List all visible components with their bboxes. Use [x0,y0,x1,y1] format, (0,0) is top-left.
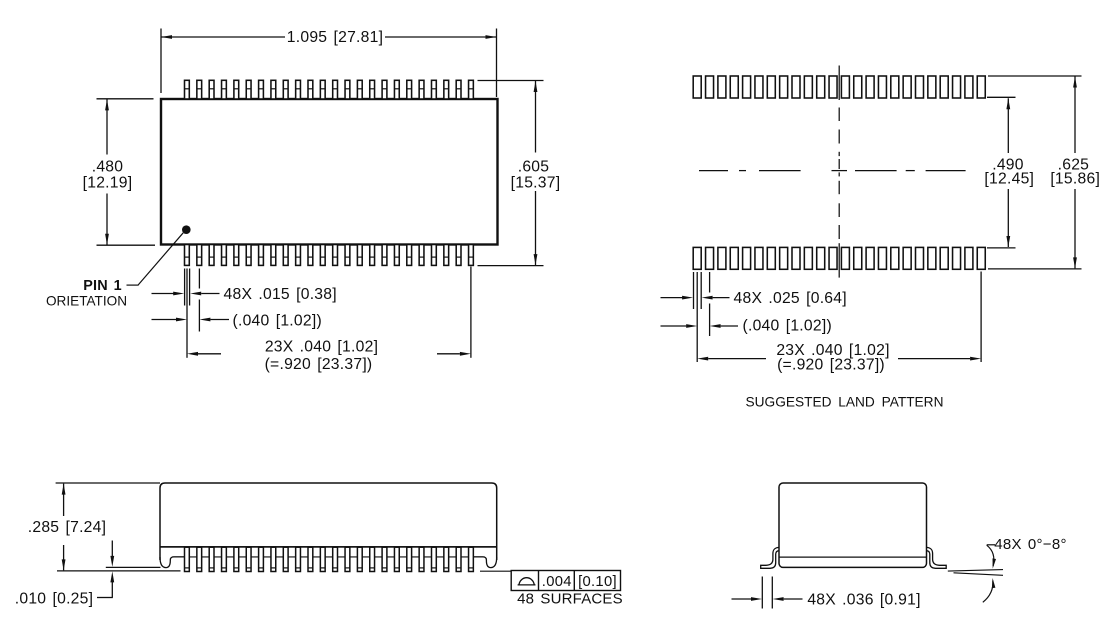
svg-text:ORIETATION: ORIETATION [46,293,127,308]
pin 1 index dot [182,225,191,234]
seating plane line (right, to flatness frame) [480,570,511,572]
side view: body bottom line [160,546,497,548]
svg-text:[15.86]: [15.86] [1050,170,1100,187]
top view: top pin row (24 leads) [185,80,474,99]
top view: package body outline [161,99,498,245]
extension lines: foot length (end view) [762,577,772,609]
svg-text:(=.920 [23.37]): (=.920 [23.37]) [777,356,885,373]
pin 1 orientation leader line [127,233,184,286]
svg-text:[0.10]: [0.10] [578,574,617,590]
flatness feature control frame .004 [0.10] [511,571,620,591]
svg-text:.480: .480 [92,159,124,176]
dimension 1.095 [27.81] overall width [161,29,497,98]
svg-text:.010 [0.25]: .010 [0.25] [15,590,94,607]
land pattern: top pad row (24 pads) [693,76,985,98]
side view: right end lead hook [472,557,496,568]
dimension 23X .040 [1.02] (=.920 [23.37]) pad span [697,342,981,373]
svg-text:48X .036 [0.91]: 48X .036 [0.91] [807,591,920,608]
lead angle reference lines 0 to 8 degrees [948,570,1003,576]
side view: package body outline [160,483,497,560]
svg-text:(.040 [1.02]): (.040 [1.02]) [743,317,832,334]
land pattern horizontal centerline [699,170,966,172]
svg-text:PIN 1: PIN 1 [83,278,122,294]
dimension 48X .025 [0.64] pad width [661,290,847,307]
land pattern vertical centerline [838,66,840,278]
dimension .010 [0.25] standoff [15,541,114,608]
side view: body bottom line over leads [160,546,497,548]
svg-text:.004: .004 [542,574,572,590]
end view: package body outline [779,483,927,567]
side view: lead tie line [172,556,485,558]
svg-text:(.040 [1.02]): (.040 [1.02]) [233,312,322,329]
dimension 48X .015 [0.38] lead width (top view) [152,286,337,303]
side view: left end lead hook and foot [160,557,185,568]
svg-text:1.095 [27.81]: 1.095 [27.81] [287,29,383,46]
end view: body parting line [779,556,927,558]
svg-text:48X .025 [0.64]: 48X .025 [0.64] [734,290,847,307]
dimension 23X .040 [1.02] (=.920 [23.37]) overall pin span (top view) [187,338,471,373]
label: PIN 1 ORIETATION [46,278,127,308]
svg-text:[12.19]: [12.19] [83,174,133,191]
seating plane line (left) [57,570,181,572]
dimension .605 [15.37] lead-tip span [478,81,561,266]
svg-text:48X 0°−8°: 48X 0°−8° [994,536,1067,553]
land pattern: bottom pad row (24 pads) [693,247,985,269]
svg-text:.285 [7.24]: .285 [7.24] [28,519,107,536]
extension lines: pin 1 width and pitch (top view) [185,267,471,358]
dimension .625 [15.86] outer pad span [988,76,1100,269]
extension lines: pad 1 width and pitch (land pattern) [694,272,982,363]
svg-text:[12.45]: [12.45] [984,170,1034,187]
top view: bottom pin row (24 leads) [185,245,474,266]
svg-text:(=.920 [23.37]): (=.920 [23.37]) [265,356,373,373]
svg-text:23X .040 [1.02]: 23X .040 [1.02] [265,338,378,355]
dimension .285 [7.24] package height [28,483,160,570]
end view: right gull-wing lead [926,547,946,568]
svg-text:.605: .605 [518,159,550,176]
dimension (.040 [1.02]) lead pitch (top view) [152,312,322,329]
dimension 48X .036 [0.91] foot length [732,591,921,608]
svg-text:[15.37]: [15.37] [511,174,561,191]
svg-text:48X .015 [0.38]: 48X .015 [0.38] [224,286,337,303]
svg-text:SUGGESTED LAND PATTERN: SUGGESTED LAND PATTERN [746,394,944,409]
dimension .480 [12.19] body height [83,99,155,245]
end view: left gull-wing lead [761,547,780,568]
dimension .490 [12.45] inner pad span [984,97,1034,248]
svg-text:48 SURFACES: 48 SURFACES [517,591,623,608]
dimension (.040 [1.02]) pad pitch [661,317,832,334]
side view: lead row (24 leads) [185,547,474,571]
angle dimension arcs with arrows [983,545,996,603]
